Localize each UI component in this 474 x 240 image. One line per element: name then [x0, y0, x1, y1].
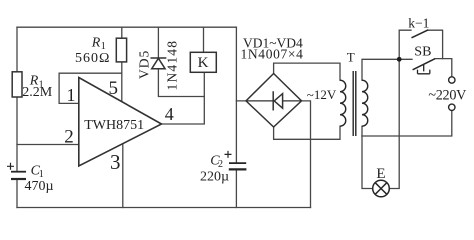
terminal ~220V bottom: [449, 104, 455, 110]
svg-text:4: 4: [165, 104, 174, 124]
transformer T core: [353, 71, 356, 136]
svg-text:k−1: k−1: [408, 16, 429, 31]
wire lamp right riser to node: [389, 59, 399, 188]
capacitor C2: [225, 151, 247, 170]
node junction dot: [397, 57, 402, 62]
wire VD5 anode to node: [158, 69, 204, 97]
relay coil K: [190, 52, 216, 72]
svg-text:3: 3: [110, 150, 121, 174]
wire bridge bottom to secondary bottom: [274, 126, 340, 139]
wire bottom rail: [17, 207, 311, 209]
wire bridge top to secondary top: [274, 63, 340, 80]
terminal ~220V top: [449, 77, 455, 83]
svg-text:2: 2: [64, 127, 74, 148]
wire VD5 cathode lead: [157, 27, 159, 58]
svg-text:560Ω: 560Ω: [75, 51, 110, 66]
wire k-1 riser: [399, 30, 411, 59]
switch SB pushbutton: [413, 59, 435, 70]
wire top rail: [17, 26, 236, 28]
wire C1 bottom lead: [16, 179, 18, 208]
wire bridge right vertex to ground: [236, 101, 310, 208]
svg-text:220µ: 220µ: [200, 170, 229, 185]
svg-text:1: 1: [67, 85, 76, 105]
wire left rail upper: [16, 27, 18, 72]
svg-text:5: 5: [109, 78, 119, 99]
svg-text:2: 2: [218, 159, 223, 170]
resistor R1 2.2M: [12, 72, 22, 97]
wire primary top to node: [362, 59, 412, 80]
svg-text:1N4007×4: 1N4007×4: [241, 46, 304, 61]
switch k-1 contact: [412, 30, 429, 38]
lamp E: [373, 180, 390, 197]
capacitor C1: [7, 163, 26, 179]
svg-text:SB: SB: [414, 44, 431, 59]
svg-text:R: R: [91, 35, 101, 50]
svg-text:T: T: [347, 50, 355, 65]
transformer T primary winding: [362, 80, 368, 126]
transformer T secondary winding: [340, 80, 346, 126]
wire lamp left riser: [362, 136, 373, 189]
wire pin1: [59, 73, 122, 103]
svg-text:TWH8751: TWH8751: [84, 118, 144, 133]
wire 220V bottom to lamp branch: [362, 111, 452, 136]
wire right supply column through C2: [235, 27, 237, 207]
svg-text:K: K: [198, 55, 209, 71]
wire left rail middle (R1 bottom to C1 top): [16, 97, 18, 172]
svg-text:1N4148: 1N4148: [165, 40, 180, 91]
op-amp U1 TWH8751: [79, 78, 162, 167]
wire pin2: [17, 144, 79, 146]
wire primary bottom: [361, 126, 363, 136]
wire K top lead: [203, 27, 205, 52]
svg-text:E: E: [376, 166, 385, 182]
svg-text:~12V: ~12V: [307, 87, 337, 102]
wire k-1 right side: [429, 30, 443, 58]
wire pin3: [122, 144, 124, 208]
svg-text:470µ: 470µ: [25, 179, 54, 194]
wire pin4 to K coil: [162, 72, 205, 124]
wire pin5 / R1 560 lead: [121, 27, 123, 102]
svg-text:~220V: ~220V: [428, 88, 467, 104]
resistor R1 560: [116, 38, 126, 62]
svg-text:VD5: VD5: [136, 50, 151, 79]
wire SB right side: [435, 59, 452, 77]
svg-text:2.2M: 2.2M: [22, 85, 53, 100]
bridge rectifier VD1-VD4: [246, 74, 302, 128]
diode VD5: [151, 57, 165, 59]
